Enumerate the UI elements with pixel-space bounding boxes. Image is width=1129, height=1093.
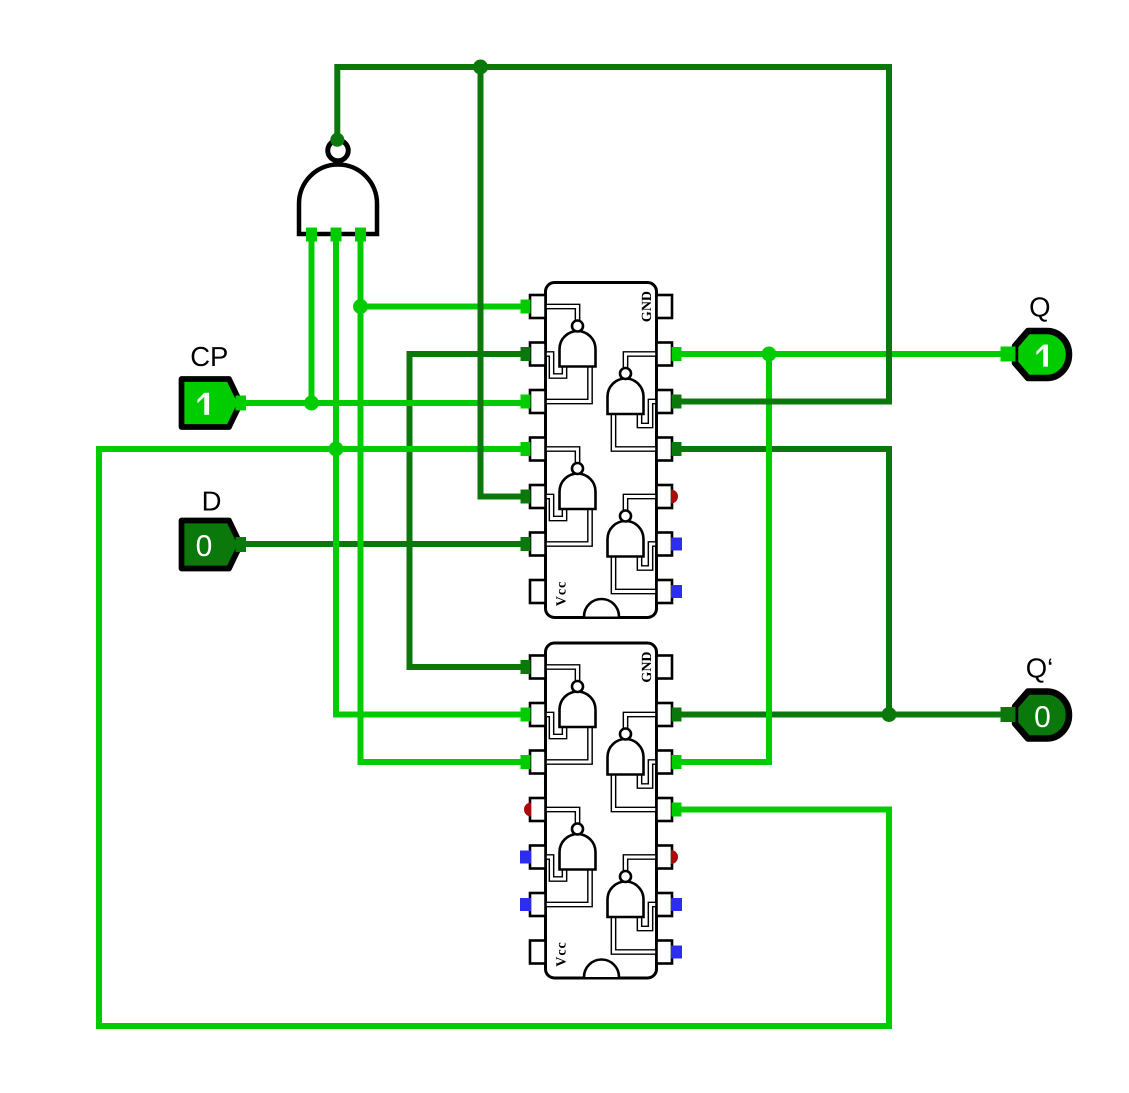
chip 1 left pin 4 wire stub <box>521 442 531 456</box>
svg-text:GND: GND <box>640 291 655 322</box>
chip 2 left pin 3 wire stub <box>521 755 531 769</box>
chip 2 left pin 4 red cap <box>524 803 531 817</box>
wire net G branch down to chip1 pin5L <box>481 67 530 497</box>
CP pin terminal stub <box>236 396 247 411</box>
IC chip 1 body <box>546 283 657 618</box>
svg-text:Vcc: Vcc <box>555 941 570 967</box>
chip 1 bottom notch <box>584 599 619 617</box>
output Q-bar wire stub <box>1001 707 1016 722</box>
NAND gate U2d inside chip <box>608 882 644 918</box>
chip 2 left pin 2 wire stub <box>521 708 531 722</box>
chip 1 left pin 3 wire stub <box>521 395 531 409</box>
junction net Q' <box>882 707 897 722</box>
svg-text:GND: GND <box>640 651 655 682</box>
junction net R <box>329 442 344 457</box>
chip 2 right pin 4 wire stub <box>672 803 682 817</box>
NAND U1 output terminal dot <box>330 133 344 147</box>
NAND U1 input stub 1 <box>306 228 317 242</box>
junction CP net <box>304 396 319 411</box>
chip 1 right pin 7 blue cap <box>671 585 682 598</box>
chip 1 right pin 5 red cap <box>671 490 678 504</box>
wire net G: NAND U1 output across top to chip1 pin3R <box>337 67 889 402</box>
NAND gate U1c inside chip <box>560 474 596 509</box>
chip 1 right pin 4 wire stub <box>672 442 682 456</box>
NAND U1 input stub 3 <box>355 228 366 242</box>
svg-text:CP: CP <box>190 341 228 372</box>
chip 2 right pin 3 wire stub <box>672 755 682 769</box>
output pin Q (value 1) <box>1015 331 1069 378</box>
NAND gate U1d inside chip <box>608 521 644 557</box>
input pin D (value 0) <box>182 521 241 569</box>
output pin Q' (value 0) <box>1015 692 1069 739</box>
chip 1 right pin 6 blue cap <box>671 538 682 551</box>
chip 1 left pin 5 wire stub <box>521 490 531 504</box>
svg-text:D: D <box>202 486 222 517</box>
svg-text:0: 0 <box>196 530 213 563</box>
chip 1 right pin 3 wire stub <box>672 395 682 409</box>
chip 2 right pin 6 blue cap <box>671 898 682 911</box>
chip 2 bottom notch <box>584 960 619 978</box>
chip 2 left pin 1 wire stub <box>521 660 531 674</box>
chip 2 left pin 5 blue cap <box>520 851 531 864</box>
chip 2 pin boxes <box>530 656 672 964</box>
wire net CP vertical to NAND U1 input 1 <box>309 240 315 403</box>
Q value label 1 <box>1036 345 1048 367</box>
chip 2 left pin 6 blue cap <box>520 898 531 911</box>
chip 1 left pin 1 wire stub <box>521 300 531 314</box>
input pin CP (value 1) <box>182 379 241 427</box>
wire net S branch to chip1 pin1L <box>361 304 530 310</box>
chip 2 right pin 2 wire stub <box>672 708 682 722</box>
wire net R feedback loop: chip2 pin4R around to chip1 pin4L <box>99 449 889 1026</box>
chip 2 right pin 5 red cap <box>671 850 678 864</box>
junction net S <box>353 299 368 314</box>
NAND gate U2b inside chip <box>608 739 644 775</box>
wire net D: input D to chip1 pin6L <box>244 541 530 547</box>
wire net Q: chip1 pin2R to output Q <box>673 351 1012 357</box>
wire net S: NAND U1 input 3 down to chip2 pin3L <box>361 240 530 762</box>
NAND gate U1b inside chip <box>608 379 644 415</box>
chip 2 right pin 7 blue cap <box>671 946 682 959</box>
svg-text:Q‘: Q‘ <box>1026 653 1054 684</box>
NAND gate U2c inside chip <box>560 834 596 869</box>
D pin terminal stub <box>236 537 247 552</box>
chip 1 pin boxes <box>530 295 672 603</box>
NAND gate U1a inside chip <box>560 331 596 366</box>
wire net R: NAND U1 input 2 down to chip2 pin2L <box>336 240 530 715</box>
chip 2 internal traces <box>547 667 656 952</box>
CP value label 1 <box>198 393 210 415</box>
junction net G <box>473 60 488 75</box>
IC chip 2 body <box>546 643 657 978</box>
svg-text:Q: Q <box>1029 292 1050 323</box>
output Q wire stub <box>1001 347 1016 362</box>
wire net CP horizontal: input CP to chip1 pin3L <box>244 400 530 406</box>
wire net Q' upper: chip1 pin4R down to Q' rail <box>673 449 890 715</box>
wire net Q': chip2 pin2R to output Q' <box>673 712 1012 718</box>
wire net S': chip1 pin2L to chip2 pin1L <box>410 354 530 667</box>
NAND U1 input stub 2 <box>331 228 342 242</box>
chip 1 right pin 2 wire stub <box>672 347 682 361</box>
svg-text:0: 0 <box>1034 701 1051 734</box>
wire net Q branch down to chip2 pin3R <box>673 354 770 762</box>
chip 1 left pin 6 wire stub <box>521 537 531 551</box>
svg-text:Vcc: Vcc <box>555 581 570 607</box>
chip 1 internal traces <box>547 307 656 592</box>
junction net Q <box>762 347 777 362</box>
NAND gate U1 output bubble <box>328 140 349 161</box>
NAND gate U2a inside chip <box>560 692 596 727</box>
NAND gate U1 (3-input) body <box>299 165 377 235</box>
chip 1 left pin 2 wire stub <box>521 347 531 361</box>
